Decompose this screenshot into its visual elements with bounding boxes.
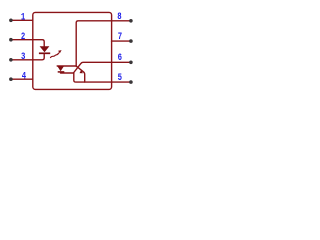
LED D1 cathode bar [39,52,50,54]
pin 7 terminal dot [129,39,133,43]
LED D1 triangle [40,46,50,52]
photodiode anode line [57,65,76,67]
svg-text:1: 1 [21,13,25,24]
photodiode D2 cathode bar [58,71,65,73]
component body box [33,12,112,89]
pin 1 wire [12,19,33,21]
emitter arrowhead [80,70,83,73]
pin 1 terminal dot [9,19,13,23]
pin 5 wire [74,73,130,82]
photodiode D2 triangle [57,66,64,71]
collector diagonal and pin 6 wire [73,62,130,73]
optocoupler U1 schematic symbol [0,0,144,101]
svg-text:2: 2 [21,32,25,43]
light arrow squiggle tail [51,53,59,58]
svg-text:3: 3 [21,52,25,63]
pin 2 terminal dot [9,38,13,42]
pin 8 terminal dot [129,19,133,23]
pin 6 terminal dot [129,61,133,65]
pin 8 wire and collector riser [76,21,130,66]
pin 4 wire [12,78,33,80]
svg-text:8: 8 [117,12,121,23]
emitter diagonal [76,66,85,82]
svg-text:6: 6 [118,53,122,64]
photodiode base wire [61,72,74,74]
pin 4 terminal dot [9,77,13,81]
pin 3 wire [12,53,44,60]
pin 2 wire [12,40,44,47]
svg-text:4: 4 [22,71,26,82]
svg-text:7: 7 [118,32,122,43]
pin 7 wire [112,40,130,42]
pin 5 terminal dot [129,80,133,84]
light arrow head [58,50,62,53]
pin 3 terminal dot [9,58,13,62]
svg-text:5: 5 [118,73,122,84]
